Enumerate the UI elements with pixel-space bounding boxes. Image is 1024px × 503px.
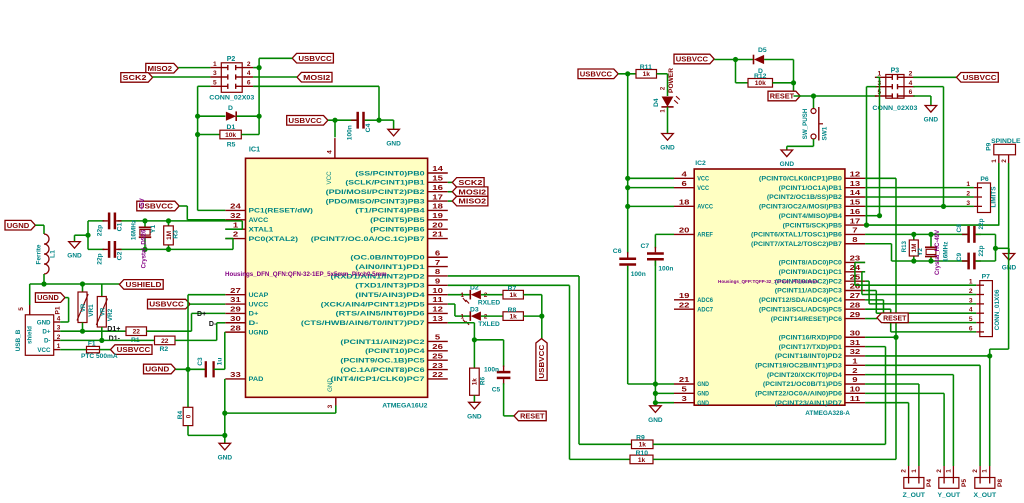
svg-text:22: 22 <box>161 338 169 345</box>
svg-text:D: D <box>228 105 233 112</box>
svg-text:3: 3 <box>57 325 61 332</box>
svg-text:(PCINT7/OC.0A/OC.1C)PB7: (PCINT7/OC.0A/OC.1C)PB7 <box>311 236 425 243</box>
svg-text:16MHz: 16MHz <box>131 220 138 240</box>
svg-text:(PCINT4/MISO)PB4: (PCINT4/MISO)PB4 <box>779 214 843 220</box>
svg-text:6: 6 <box>247 80 251 87</box>
svg-text:30: 30 <box>850 330 861 337</box>
svg-text:32: 32 <box>850 349 861 356</box>
svg-text:4: 4 <box>969 307 973 314</box>
svg-text:31: 31 <box>230 297 241 304</box>
svg-text:ATMEGA328-A: ATMEGA328-A <box>805 410 850 417</box>
svg-text:23: 23 <box>850 256 861 263</box>
svg-text:Crystal_DS26: Crystal_DS26 <box>141 229 147 268</box>
svg-text:C9: C9 <box>956 252 963 261</box>
svg-text:(PCINT11/AIN2)PC2: (PCINT11/AIN2)PC2 <box>340 339 425 346</box>
svg-text:P3: P3 <box>891 68 900 75</box>
svg-text:D4: D4 <box>653 98 660 107</box>
svg-text:2: 2 <box>1001 159 1008 163</box>
svg-text:100n: 100n <box>484 366 499 373</box>
svg-text:2: 2 <box>966 191 970 198</box>
svg-text:5: 5 <box>682 387 687 394</box>
svg-text:P4: P4 <box>926 479 933 487</box>
svg-text:USBVCC: USBVCC <box>288 116 321 125</box>
svg-text:USBVCC: USBVCC <box>539 345 546 379</box>
svg-text:28: 28 <box>850 302 861 309</box>
svg-text:USB_B: USB_B <box>15 329 22 351</box>
svg-text:22: 22 <box>679 302 690 309</box>
svg-text:(PCINT14/RESET)PC6: (PCINT14/RESET)PC6 <box>771 317 843 323</box>
svg-text:12: 12 <box>850 172 861 179</box>
svg-text:1: 1 <box>460 292 464 299</box>
svg-text:P7: P7 <box>982 273 991 280</box>
svg-text:D3: D3 <box>470 306 479 313</box>
svg-text:D-: D- <box>209 321 217 328</box>
svg-text:22p: 22p <box>978 245 985 256</box>
svg-text:(PCINT18/INT0)PD2: (PCINT18/INT0)PD2 <box>775 354 843 360</box>
svg-text:R5: R5 <box>227 141 236 148</box>
svg-text:UGND: UGND <box>145 365 169 374</box>
svg-text:(TXD1/INT3)PD3: (TXD1/INT3)PD3 <box>355 283 425 290</box>
svg-text:(PCINT3/OC2A/MOSI)PB3: (PCINT3/OC2A/MOSI)PB3 <box>759 205 843 211</box>
svg-text:2: 2 <box>969 288 973 295</box>
svg-text:Z_OUT: Z_OUT <box>903 492 926 499</box>
svg-text:22: 22 <box>432 372 443 379</box>
svg-text:18: 18 <box>432 204 443 211</box>
svg-text:(PCINT6)PB6: (PCINT6)PB6 <box>370 226 425 233</box>
svg-text:Crystal_HC-49V: Crystal_HC-49V <box>935 230 941 275</box>
svg-text:1: 1 <box>991 159 998 163</box>
svg-text:22p: 22p <box>97 253 104 264</box>
svg-text:(CTS/HWB/AIN6/T0/INT7)PD7: (CTS/HWB/AIN6/T0/INT7)PD7 <box>301 320 425 327</box>
svg-text:LIMITS: LIMITS <box>990 186 997 208</box>
svg-text:P2: P2 <box>227 56 236 63</box>
svg-text:TXLED: TXLED <box>478 321 500 328</box>
svg-text:22: 22 <box>133 329 141 336</box>
svg-text:USBVCC: USBVCC <box>149 300 184 309</box>
svg-text:VCC: VCC <box>697 177 709 183</box>
svg-text:USBVCC: USBVCC <box>676 55 708 64</box>
svg-text:16: 16 <box>850 209 861 216</box>
svg-text:D-: D- <box>44 338 51 345</box>
svg-text:10: 10 <box>850 387 861 394</box>
svg-text:19: 19 <box>432 213 443 220</box>
svg-text:GND: GND <box>780 161 795 168</box>
svg-text:P5: P5 <box>961 479 968 487</box>
svg-text:18: 18 <box>679 200 690 207</box>
svg-text:1k: 1k <box>510 292 518 299</box>
svg-text:4: 4 <box>682 172 687 179</box>
svg-text:IC2: IC2 <box>695 160 706 167</box>
svg-text:2: 2 <box>972 469 979 473</box>
svg-text:5: 5 <box>969 316 973 323</box>
svg-text:24: 24 <box>230 204 241 211</box>
svg-text:1: 1 <box>460 313 464 320</box>
svg-text:100n: 100n <box>658 266 673 273</box>
svg-text:UGND: UGND <box>37 293 59 302</box>
svg-text:MOSI2: MOSI2 <box>458 187 486 196</box>
svg-text:(PCINT6/XTAL1/TOSC1)PB6: (PCINT6/XTAL1/TOSC1)PB6 <box>751 233 843 239</box>
svg-text:Y_OUT: Y_OUT <box>937 492 961 499</box>
svg-text:0: 0 <box>185 414 192 418</box>
svg-text:R10: R10 <box>636 450 649 457</box>
svg-text:C5: C5 <box>492 386 501 393</box>
svg-text:2: 2 <box>57 334 61 341</box>
svg-text:1: 1 <box>852 359 857 366</box>
svg-text:1k: 1k <box>638 457 646 464</box>
svg-text:(PDO/MISO/PCINT3)PB3: (PDO/MISO/PCINT3)PB3 <box>326 198 425 205</box>
svg-text:2: 2 <box>484 313 488 320</box>
svg-text:(PCINT5)PB5: (PCINT5)PB5 <box>370 217 425 224</box>
svg-text:shield: shield <box>27 326 34 344</box>
svg-text:14: 14 <box>850 190 861 197</box>
svg-text:R12: R12 <box>754 73 767 80</box>
svg-text:32: 32 <box>230 213 241 220</box>
svg-text:(XCK/AIN4/PCINT12)PD5: (XCK/AIN4/PCINT12)PD5 <box>321 301 425 308</box>
svg-text:1: 1 <box>57 343 61 350</box>
svg-text:1: 1 <box>945 469 952 473</box>
svg-text:UGND: UGND <box>7 221 30 230</box>
svg-text:D5: D5 <box>758 47 767 54</box>
svg-text:2: 2 <box>484 292 488 299</box>
svg-text:RESET: RESET <box>770 92 795 101</box>
svg-text:R4: R4 <box>177 410 184 419</box>
svg-text:11: 11 <box>432 297 443 304</box>
svg-text:1u: 1u <box>216 358 223 366</box>
svg-text:CONN_02X03: CONN_02X03 <box>209 95 254 102</box>
svg-text:AVCC: AVCC <box>249 217 269 224</box>
svg-text:(PCINT9/ADC1)PC1: (PCINT9/ADC1)PC1 <box>779 270 843 276</box>
svg-text:100n: 100n <box>631 271 646 278</box>
svg-text:P6: P6 <box>980 176 989 183</box>
svg-text:19: 19 <box>679 293 690 300</box>
svg-text:1: 1 <box>966 181 970 188</box>
svg-text:(PCINT9/OC.1B)PC5: (PCINT9/OC.1B)PC5 <box>340 358 425 365</box>
svg-text:27: 27 <box>850 293 861 300</box>
svg-text:5: 5 <box>18 307 25 311</box>
svg-text:2: 2 <box>936 469 943 473</box>
svg-text:R6: R6 <box>479 376 486 385</box>
svg-text:16MHz: 16MHz <box>943 242 950 262</box>
svg-text:1: 1 <box>982 469 989 473</box>
svg-text:(PCINT1/OC1A)PB1: (PCINT1/OC1A)PB1 <box>779 186 843 192</box>
svg-text:15: 15 <box>432 176 443 183</box>
svg-text:4: 4 <box>326 150 333 154</box>
svg-text:R8: R8 <box>508 307 517 314</box>
svg-text:(PCINT23/AIN1)PD7: (PCINT23/AIN1)PD7 <box>775 401 843 407</box>
svg-text:(PCINT8/ADC0)PC0: (PCINT8/ADC0)PC0 <box>779 261 843 267</box>
svg-text:USBVCC: USBVCC <box>963 73 997 82</box>
svg-text:IC1: IC1 <box>249 144 260 153</box>
svg-text:C1: C1 <box>117 222 124 231</box>
svg-text:GND: GND <box>924 117 939 124</box>
svg-text:(PCINT5/SCK)PB5: (PCINT5/SCK)PB5 <box>783 223 843 229</box>
svg-text:X_OUT: X_OUT <box>973 492 997 499</box>
svg-text:PAD: PAD <box>249 376 264 383</box>
svg-text:VR1: VR1 <box>88 304 95 317</box>
svg-text:2: 2 <box>233 232 238 239</box>
svg-text:(SCLK/PCINT1)PB1: (SCLK/PCINT1)PB1 <box>345 180 425 187</box>
svg-text:SPINDLE: SPINDLE <box>991 138 1021 145</box>
svg-text:100n: 100n <box>346 125 353 140</box>
svg-text:C4: C4 <box>365 123 372 132</box>
svg-text:VCC: VCC <box>37 347 51 354</box>
svg-text:(PCINT0/CLK0/ICP1)PB0: (PCINT0/CLK0/ICP1)PB0 <box>759 177 843 183</box>
svg-text:13: 13 <box>850 181 861 188</box>
svg-text:MOSI2: MOSI2 <box>303 73 330 82</box>
svg-text:USBVCC: USBVCC <box>117 345 151 354</box>
svg-text:+5V: +5V <box>139 197 146 209</box>
svg-text:(PCINT20/XCK/T0)PD4: (PCINT20/XCK/T0)PD4 <box>767 373 843 379</box>
svg-text:PTC 500mA: PTC 500mA <box>81 353 118 360</box>
svg-text:6: 6 <box>682 181 687 188</box>
svg-text:5: 5 <box>213 80 217 87</box>
svg-text:CONN_01X06: CONN_01X06 <box>994 289 1001 330</box>
svg-text:27: 27 <box>230 288 241 295</box>
svg-text:5: 5 <box>435 335 440 342</box>
svg-text:16: 16 <box>432 185 443 192</box>
svg-text:10: 10 <box>432 288 443 295</box>
svg-text:6: 6 <box>435 250 440 257</box>
svg-text:C3: C3 <box>197 357 204 366</box>
svg-text:(PCINT7/XTAL2/TOSC2)PB7: (PCINT7/XTAL2/TOSC2)PB7 <box>751 242 843 248</box>
svg-text:1k: 1k <box>643 71 651 78</box>
svg-text:21: 21 <box>432 232 443 239</box>
svg-text:Y1: Y1 <box>150 225 157 234</box>
svg-text:L1: L1 <box>50 250 57 258</box>
svg-text:29: 29 <box>850 312 861 319</box>
svg-text:8: 8 <box>435 269 440 276</box>
svg-text:(PCINT13/SCL/ADC5)PC5: (PCINT13/SCL/ADC5)PC5 <box>759 307 843 313</box>
svg-text:ATMEGA16U2: ATMEGA16U2 <box>382 403 427 410</box>
svg-text:D+: D+ <box>249 311 259 318</box>
svg-text:(INT5/AIN3)PD4: (INT5/AIN3)PD4 <box>355 292 425 299</box>
svg-text:2: 2 <box>909 71 913 78</box>
svg-text:C6: C6 <box>613 248 622 255</box>
svg-text:6: 6 <box>969 325 973 332</box>
svg-text:14: 14 <box>432 166 443 173</box>
svg-text:SCK2: SCK2 <box>123 73 147 82</box>
svg-text:USHIELD: USHIELD <box>126 280 162 289</box>
svg-text:VR: VR <box>81 303 87 312</box>
svg-text:SCK2: SCK2 <box>458 178 482 187</box>
svg-text:30: 30 <box>230 316 241 323</box>
svg-text:(PCINT19/OC2B/INT1)PD3: (PCINT19/OC2B/INT1)PD3 <box>755 364 843 370</box>
svg-text:UGND: UGND <box>249 329 269 336</box>
svg-text:D-: D- <box>249 320 259 327</box>
svg-text:13: 13 <box>432 316 443 323</box>
svg-text:VR: VR <box>100 307 106 316</box>
svg-text:GND: GND <box>697 382 709 388</box>
svg-text:25: 25 <box>432 353 443 360</box>
svg-text:C8: C8 <box>956 224 963 233</box>
svg-text:23: 23 <box>432 363 443 370</box>
svg-text:3: 3 <box>682 396 687 403</box>
svg-text:33: 33 <box>230 372 241 379</box>
svg-text:1k: 1k <box>639 442 647 449</box>
svg-text:4: 4 <box>247 70 251 77</box>
svg-text:7: 7 <box>852 228 857 235</box>
svg-text:22p: 22p <box>97 225 104 236</box>
svg-text:VCC: VCC <box>326 171 333 185</box>
svg-text:17: 17 <box>850 218 861 225</box>
svg-text:RESET: RESET <box>520 411 545 420</box>
svg-text:PC0(XTAL2): PC0(XTAL2) <box>249 236 299 243</box>
svg-text:7: 7 <box>435 260 440 267</box>
svg-text:2: 2 <box>852 368 857 375</box>
svg-text:USBVCC: USBVCC <box>298 54 331 63</box>
svg-text:1: 1 <box>213 61 217 68</box>
svg-text:SW_PUSH: SW_PUSH <box>802 108 809 139</box>
svg-text:Housings_QFP:TQFP-32_7x7mm_Pit: Housings_QFP:TQFP-32_7x7mm_Pitch0.8mm <box>718 279 818 284</box>
svg-text:GND: GND <box>697 401 709 407</box>
svg-text:10k: 10k <box>755 80 766 87</box>
svg-text:(PCINT12/SDA/ADC4)PC4: (PCINT12/SDA/ADC4)PC4 <box>759 298 843 304</box>
svg-text:GND: GND <box>467 413 482 420</box>
svg-text:R9: R9 <box>636 434 645 441</box>
svg-text:R2: R2 <box>159 346 168 353</box>
svg-text:GND: GND <box>660 145 675 152</box>
svg-text:12: 12 <box>432 307 443 314</box>
svg-text:28: 28 <box>230 325 241 332</box>
svg-text:R13: R13 <box>901 240 908 252</box>
svg-text:(INT4/ICP1/CLK0)PC7: (INT4/ICP1/CLK0)PC7 <box>331 376 425 383</box>
svg-text:GND: GND <box>648 417 663 424</box>
svg-text:VR2: VR2 <box>107 308 114 321</box>
svg-text:(PCINT10)PC4: (PCINT10)PC4 <box>365 348 425 355</box>
svg-text:(OC.1A/PCINT8)PC6: (OC.1A/PCINT8)PC6 <box>340 367 425 374</box>
svg-text:2: 2 <box>901 469 908 473</box>
svg-text:GND: GND <box>218 454 233 461</box>
svg-text:AREF: AREF <box>697 233 713 239</box>
svg-text:P8: P8 <box>997 479 1004 487</box>
svg-text:3: 3 <box>327 404 334 408</box>
svg-text:F1: F1 <box>88 340 96 347</box>
svg-text:P1: P1 <box>55 306 62 314</box>
svg-text:22p: 22p <box>978 218 985 229</box>
svg-text:(T1/PCINT4)PB4: (T1/PCINT4)PB4 <box>355 208 425 215</box>
svg-text:UCAP: UCAP <box>249 292 269 299</box>
svg-text:15: 15 <box>850 200 861 207</box>
svg-text:R11: R11 <box>640 64 652 71</box>
svg-text:(RTS/AIN5/INT6)PD6: (RTS/AIN5/INT6)PD6 <box>336 311 426 318</box>
svg-text:20: 20 <box>679 228 690 235</box>
svg-text:GND: GND <box>67 253 82 260</box>
svg-text:AVCC: AVCC <box>697 205 713 211</box>
svg-text:(PDI/MOSI/PCINT2)PB2: (PDI/MOSI/PCINT2)PB2 <box>326 189 425 196</box>
svg-text:1k: 1k <box>510 314 518 321</box>
svg-text:(OC.0B/INT0)PD0: (OC.0B/INT0)PD0 <box>350 255 425 262</box>
svg-text:RXLED: RXLED <box>478 299 501 306</box>
svg-text:PC1(RESET/dW): PC1(RESET/dW) <box>249 208 313 215</box>
svg-text:R3: R3 <box>172 230 179 239</box>
svg-text:Y2: Y2 <box>917 248 924 256</box>
svg-text:10k: 10k <box>225 132 236 139</box>
svg-text:3: 3 <box>213 70 217 77</box>
svg-text:(PCINT17/TXD)PD1: (PCINT17/TXD)PD1 <box>779 345 843 351</box>
svg-text:29: 29 <box>230 307 241 314</box>
svg-text:8: 8 <box>852 237 857 244</box>
svg-text:D+: D+ <box>197 311 206 318</box>
svg-text:(PCINT22/OC0A/AIN0)PD6: (PCINT22/OC0A/AIN0)PD6 <box>755 392 843 398</box>
svg-text:2: 2 <box>247 61 251 68</box>
svg-text:POWER: POWER <box>668 68 675 93</box>
svg-text:17: 17 <box>432 194 443 201</box>
svg-text:C7: C7 <box>640 243 649 250</box>
svg-text:UVCC: UVCC <box>249 301 269 308</box>
svg-text:4: 4 <box>909 80 913 87</box>
svg-text:GND: GND <box>697 392 709 398</box>
svg-text:31: 31 <box>850 340 861 347</box>
svg-text:Ferrite: Ferrite <box>36 244 43 264</box>
svg-text:MISO2: MISO2 <box>148 64 173 73</box>
svg-text:9: 9 <box>435 279 440 286</box>
svg-text:ADC7: ADC7 <box>697 307 713 313</box>
svg-text:1: 1 <box>233 222 238 229</box>
svg-text:USBVCC: USBVCC <box>580 69 612 78</box>
svg-text:C2: C2 <box>117 251 124 260</box>
svg-text:3: 3 <box>969 297 973 304</box>
svg-text:(PCINT21/OC0B/T1)PD5: (PCINT21/OC0B/T1)PD5 <box>763 382 843 388</box>
svg-text:R7: R7 <box>508 285 517 292</box>
svg-text:MISO2: MISO2 <box>458 197 486 206</box>
svg-text:1: 1 <box>969 279 973 286</box>
svg-text:9: 9 <box>852 377 857 384</box>
svg-text:GND: GND <box>327 378 334 392</box>
svg-text:D+: D+ <box>42 329 50 336</box>
svg-text:GND: GND <box>386 140 401 147</box>
svg-text:(PCINT16/RXD)PD0: (PCINT16/RXD)PD0 <box>779 335 843 341</box>
svg-text:11: 11 <box>850 396 861 403</box>
svg-text:1: 1 <box>877 71 881 78</box>
svg-text:1: 1 <box>911 469 918 473</box>
svg-text:21: 21 <box>679 377 690 384</box>
svg-text:D1+: D1+ <box>107 326 120 333</box>
svg-text:(PCINT11/ADC3)PC3: (PCINT11/ADC3)PC3 <box>775 289 843 295</box>
svg-text:20: 20 <box>432 222 443 229</box>
svg-text:6: 6 <box>909 89 913 96</box>
svg-text:(SS/PCINT0)PB0: (SS/PCINT0)PB0 <box>355 170 425 177</box>
svg-text:GND: GND <box>37 319 51 326</box>
svg-text:4: 4 <box>57 316 61 323</box>
svg-text:26: 26 <box>432 344 443 351</box>
svg-text:ADC6: ADC6 <box>697 298 713 304</box>
svg-text:VCC: VCC <box>697 186 709 192</box>
svg-text:(PCINT2/OC1B/SS)PB2: (PCINT2/OC1B/SS)PB2 <box>767 195 843 201</box>
svg-text:RESET: RESET <box>883 313 907 322</box>
svg-text:SW1: SW1 <box>821 126 828 140</box>
svg-text:D1-: D1- <box>109 336 121 343</box>
svg-text:3: 3 <box>966 200 970 207</box>
svg-text:1k: 1k <box>472 378 479 386</box>
svg-text:XTAL1: XTAL1 <box>249 226 274 233</box>
svg-text:Housings_DFN_QFN:QFN-32-1EP_5x: Housings_DFN_QFN:QFN-32-1EP_5x5mm_Pitch0… <box>225 271 387 278</box>
